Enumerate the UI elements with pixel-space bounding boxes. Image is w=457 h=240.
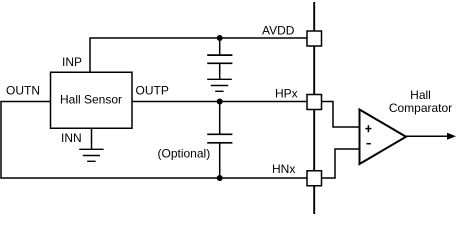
- svg-text:HPx: HPx: [275, 87, 298, 101]
- svg-text:Hall: Hall: [410, 88, 431, 102]
- svg-text:(Optional): (Optional): [158, 147, 211, 161]
- svg-text:INN: INN: [61, 131, 82, 145]
- svg-text:HNx: HNx: [272, 162, 295, 176]
- svg-text:AVDD: AVDD: [262, 24, 295, 38]
- svg-text:OUTP: OUTP: [136, 84, 169, 98]
- svg-text:INP: INP: [62, 55, 82, 69]
- svg-text:Hall Sensor: Hall Sensor: [60, 93, 122, 107]
- svg-text:Comparator: Comparator: [389, 101, 452, 115]
- svg-text:OUTN: OUTN: [6, 84, 40, 98]
